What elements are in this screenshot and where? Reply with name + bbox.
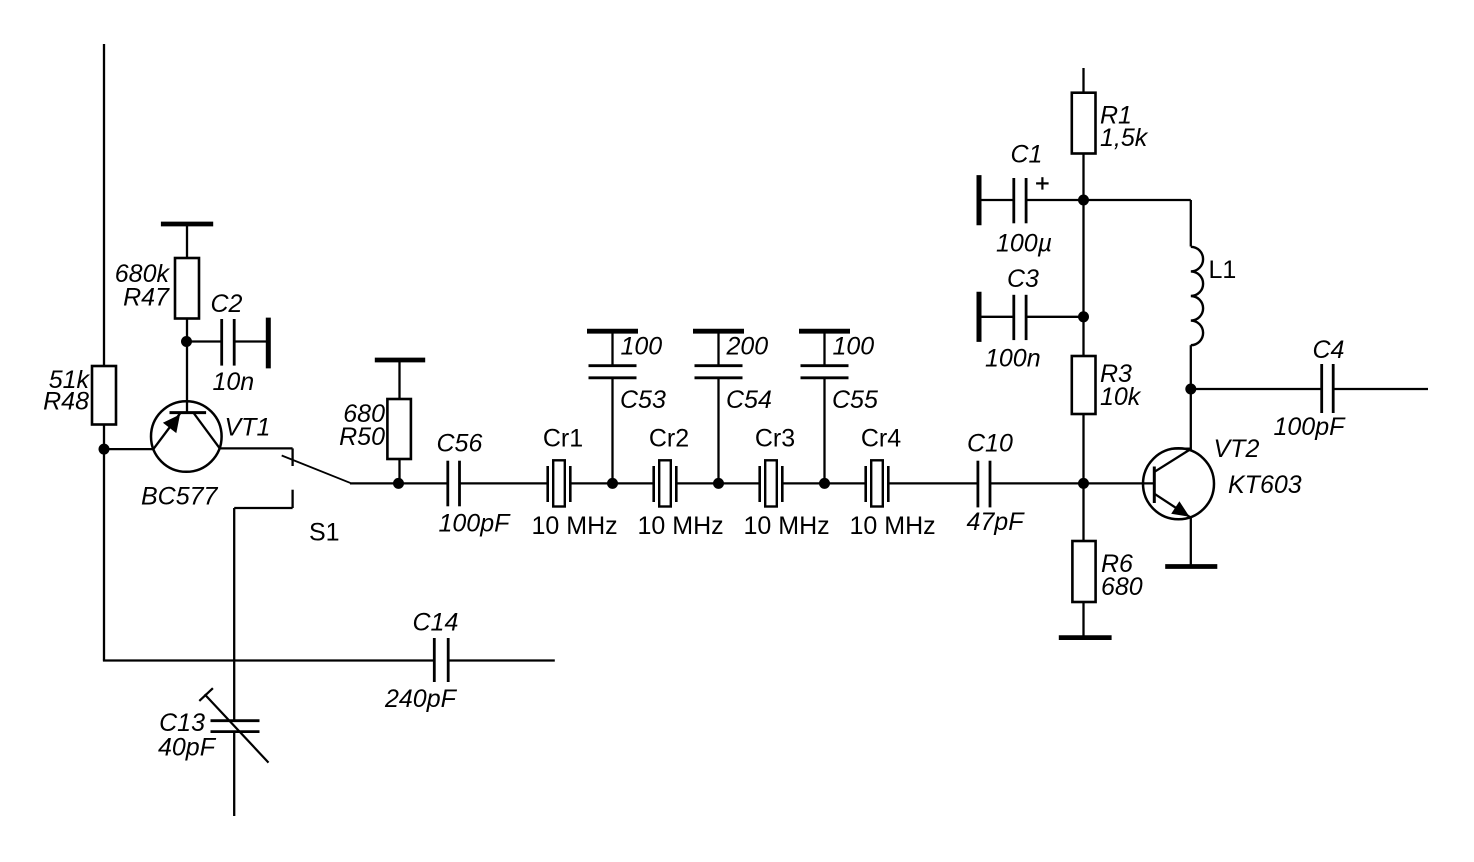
inductor L1 [1191, 247, 1203, 345]
wire main line S1 to C56 [350, 482, 448, 484]
svg-text:100µ: 100µ [996, 230, 1052, 258]
wire R50 bottom to main line [398, 459, 400, 483]
svg-text:KT603: KT603 [1228, 471, 1302, 499]
junction dot bias divider / main line [1078, 478, 1089, 489]
switch S1 lower contact stub [291, 490, 293, 508]
wire C13 bottom [233, 732, 235, 816]
svg-text:10k: 10k [1100, 383, 1142, 411]
wire C56 to Cr1 [460, 482, 548, 484]
resistor R3 [1072, 356, 1096, 414]
wire VT1 left lead [104, 448, 153, 450]
wire Cr4 to C10 [888, 482, 978, 484]
svg-text:C4: C4 [1313, 336, 1345, 364]
wire left vertical rail [103, 44, 105, 661]
wire VT1 right lead [220, 447, 293, 449]
svg-text:240pF: 240pF [384, 685, 458, 713]
wire output node to C4 [1191, 388, 1322, 390]
svg-text:40pF: 40pF [158, 734, 217, 762]
svg-text:R48: R48 [43, 388, 89, 416]
crystal Cr4 [866, 460, 889, 506]
svg-text:680: 680 [1101, 573, 1143, 601]
svg-text:Cr3: Cr3 [755, 425, 795, 453]
capacitor C2 [220, 319, 223, 366]
junction dot node Cr1/Cr2/C53 [607, 478, 618, 489]
junction dot R47/C2/VT1 base [181, 336, 192, 347]
svg-text:S1: S1 [309, 519, 340, 547]
wire VT2 emitter [1190, 517, 1192, 566]
wire R47 top stem [186, 224, 188, 258]
wire C2 to bar [234, 340, 266, 342]
svg-text:C10: C10 [967, 430, 1013, 458]
switch S1 arm [282, 456, 351, 483]
svg-text:R47: R47 [123, 284, 170, 312]
capacitor C10 [977, 461, 980, 508]
svg-text:Cr2: Cr2 [649, 425, 689, 453]
trimmer arrow of C13 [199, 688, 268, 762]
wire R6 bottom to ground [1082, 602, 1084, 638]
transistor VT2 [1143, 448, 1214, 519]
svg-text:C53: C53 [620, 386, 666, 414]
svg-text:1,5k: 1,5k [1100, 124, 1149, 152]
ground bar VT2 emitter [1165, 564, 1217, 569]
svg-text:47pF: 47pF [967, 508, 1026, 536]
crystal Cr1 [548, 460, 571, 506]
svg-text:C2: C2 [211, 290, 243, 318]
svg-text:100pF: 100pF [439, 510, 512, 538]
crystal Cr3 [760, 460, 783, 506]
capacitor C54 branch [693, 331, 744, 483]
junction dot R50/main line [393, 478, 404, 489]
svg-text:10 MHz: 10 MHz [638, 512, 724, 540]
wire bottom horizontal left of C14 [103, 659, 434, 661]
svg-text:C3: C3 [1007, 265, 1039, 293]
resistor R1 [1072, 93, 1096, 154]
wire C1 node to L1 top [1084, 199, 1191, 201]
svg-text:C55: C55 [832, 386, 878, 414]
svg-text:C56: C56 [437, 430, 483, 458]
svg-text:100: 100 [621, 332, 663, 360]
svg-text:Cr1: Cr1 [543, 425, 583, 453]
wire output right of C4 [1333, 388, 1428, 390]
ground bar above R50 [375, 358, 425, 363]
junction dot collector output node [1185, 384, 1196, 395]
junction dot C1 node [1078, 195, 1089, 206]
junction dot R48/VT1 emitter lead [99, 444, 110, 455]
svg-text:VT2: VT2 [1214, 435, 1260, 463]
svg-text:C1: C1 [1011, 141, 1043, 169]
wire R47 bottom to node [186, 319, 188, 342]
switch S1 upper contact stub [291, 448, 293, 466]
wire S1 contact down to C13 [233, 508, 235, 721]
wire R50 top stem [398, 360, 400, 399]
wire node to C2 [187, 340, 222, 342]
svg-text:10 MHz: 10 MHz [850, 512, 936, 540]
svg-text:100: 100 [833, 332, 875, 360]
ground bar below R6 [1059, 635, 1112, 640]
svg-text:R50: R50 [339, 423, 385, 451]
capacitor C4 [1320, 364, 1323, 413]
wire Cr2 to Cr3 [676, 482, 759, 484]
junction dot node Cr2/Cr3/C54 [713, 478, 724, 489]
svg-text:VT1: VT1 [225, 413, 271, 441]
wire R1 bottom to R3 top [1082, 154, 1084, 357]
svg-text:10 MHz: 10 MHz [744, 512, 830, 540]
junction dot C3 node [1078, 311, 1089, 322]
svg-text:10n: 10n [213, 368, 255, 396]
svg-text:C54: C54 [726, 386, 772, 414]
capacitor C3 [979, 292, 1084, 342]
capacitor C13 trimmer plates [211, 719, 260, 722]
capacitor C14 [433, 638, 436, 682]
capacitor C1 [979, 175, 1084, 225]
wire Cr3 to Cr4 [782, 482, 865, 484]
capacitor C56 [446, 461, 449, 507]
wire R3 bottom to R6 top [1082, 414, 1084, 541]
ground bar right of C2 [266, 318, 271, 369]
svg-text:100pF: 100pF [1274, 413, 1347, 441]
capacitor C53 branch [587, 331, 638, 483]
resistor R47 [175, 258, 199, 319]
junction dot node Cr3/Cr4/C55 [819, 478, 830, 489]
svg-text:Cr4: Cr4 [861, 425, 901, 453]
wire Cr1 to Cr2 [570, 482, 653, 484]
plus sign of C1 [1036, 177, 1049, 189]
svg-text:10 MHz: 10 MHz [532, 512, 618, 540]
ground bar above R47 [161, 222, 213, 227]
resistor R6 [1072, 541, 1095, 602]
capacitor C55 branch [799, 331, 850, 483]
wire VT1 base lead [186, 342, 188, 413]
wire L1 bottom to collector node [1190, 345, 1192, 389]
wire VT2 collector [1190, 389, 1192, 451]
wire supply stub above R1 [1082, 68, 1084, 93]
wire S1 lower contact horizontal [234, 507, 292, 509]
svg-text:L1: L1 [1209, 256, 1237, 284]
resistor R50 [387, 399, 411, 459]
svg-text:100n: 100n [985, 345, 1041, 373]
svg-text:BC577: BC577 [141, 483, 219, 511]
svg-text:C14: C14 [413, 609, 459, 637]
wire C10 to VT2 base [990, 482, 1154, 484]
transistor VT1 [151, 401, 222, 472]
svg-text:200: 200 [726, 332, 769, 360]
resistor R48 [92, 366, 116, 425]
crystal Cr2 [654, 460, 677, 506]
wire bottom horizontal right of C14 [448, 659, 555, 661]
